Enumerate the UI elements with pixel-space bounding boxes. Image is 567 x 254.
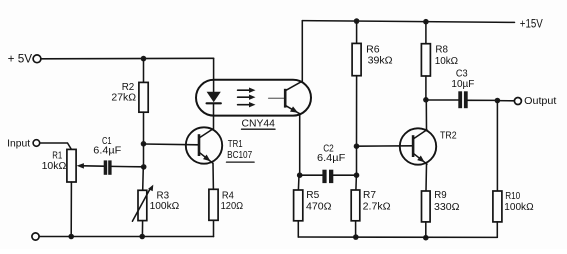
junction: ground rail at R3 <box>139 234 145 240</box>
svg-text:6.4µF: 6.4µF <box>317 153 345 164</box>
wire: R10 bottom to ground rail <box>496 222 498 237</box>
resistor R3 (variable) <box>138 190 147 220</box>
wire: base node down to C2 node <box>356 146 358 175</box>
svg-text:39kΩ: 39kΩ <box>368 55 393 67</box>
R1 wiper arrow <box>84 165 104 167</box>
wire: opto collector to +15V rail <box>301 21 303 82</box>
wire: +5V rail <box>41 57 213 60</box>
wire: R8 bottom lead <box>425 76 427 100</box>
svg-text:470Ω: 470Ω <box>306 200 332 212</box>
junction: ground rail at R9 <box>423 235 429 241</box>
wire: base node down to C1 node <box>143 144 145 167</box>
junction: R8 top at +15V rail <box>423 19 429 25</box>
optocoupler CNY44 body <box>196 80 311 116</box>
resistor R7 <box>351 190 360 221</box>
svg-text:10µF: 10µF <box>451 78 474 90</box>
svg-text:TR2: TR2 <box>440 130 457 142</box>
wire: TR2 emitter lead <box>425 164 428 191</box>
wire: R3 bottom lead <box>141 221 143 237</box>
wire: TR2 base wire <box>357 145 413 147</box>
junction: R2 top node <box>141 56 147 62</box>
junction: ground rail at R7 <box>353 234 359 240</box>
wire: C3 to R10 node <box>468 99 498 101</box>
svg-text:10kΩ: 10kΩ <box>42 160 67 172</box>
wire: TR1 base wire <box>144 143 199 146</box>
wire: rail to R6 <box>356 21 358 43</box>
junction: C1 output node <box>141 164 147 170</box>
svg-text:6.4µF: 6.4µF <box>93 145 121 156</box>
resistor R4 <box>209 189 218 220</box>
light arrow 1 <box>238 89 251 91</box>
junction: R6 top at +15V rail <box>354 18 360 24</box>
resistor R5 <box>294 190 303 221</box>
wire: +15V rail <box>302 21 514 23</box>
wire: R1 bottom to ground rail <box>70 182 72 237</box>
wire: C2 node down to R7 <box>355 175 358 190</box>
wire: node to output terminal <box>497 100 514 102</box>
wire: R5 bottom to ground rail <box>297 221 299 237</box>
terminal +5V <box>33 55 41 63</box>
transistor TR1 <box>186 127 222 163</box>
resistor R9 <box>422 191 431 222</box>
svg-text:R8: R8 <box>435 44 448 56</box>
wire: R7 bottom to ground rail <box>355 221 357 237</box>
svg-text:100kΩ: 100kΩ <box>150 200 180 212</box>
wire: output node to C3 <box>426 99 458 101</box>
wire: right ground rail <box>298 236 497 238</box>
LED of CNY44 <box>207 92 221 102</box>
svg-text:TR1: TR1 <box>228 138 243 150</box>
potentiometer R1 <box>67 149 76 182</box>
capacitor C1 <box>104 160 108 174</box>
svg-text:100kΩ: 100kΩ <box>504 201 533 213</box>
wire: rail to R8 <box>425 22 427 44</box>
resistor R6 <box>352 43 361 75</box>
svg-text:Output: Output <box>524 95 556 107</box>
wire: TR1 collector / LED cathode <box>213 103 215 128</box>
wire: R4 bottom lead <box>213 220 215 236</box>
transistor TR2 <box>400 128 436 164</box>
wire: C1 node down to R3 <box>142 167 145 190</box>
svg-text:R5: R5 <box>306 189 319 201</box>
wire: left ground rail <box>39 236 213 238</box>
svg-text:CNY44: CNY44 <box>242 119 276 130</box>
junction: TR2 base node <box>354 143 360 149</box>
svg-text:2.7kΩ: 2.7kΩ <box>363 201 391 213</box>
svg-text:+15V: +15V <box>520 19 543 31</box>
junction: R8 bottom / output node <box>423 97 429 103</box>
svg-text:120Ω: 120Ω <box>221 200 244 212</box>
light arrow 3 <box>238 104 251 106</box>
capacitor C2 <box>322 170 326 183</box>
wire: R10 top lead <box>496 101 498 192</box>
wire: C1 right lead to node <box>112 165 144 167</box>
junction: R10 top node <box>495 98 501 104</box>
capacitor C3 <box>458 91 462 108</box>
wire: R6 bottom to TR2 base node <box>356 76 358 147</box>
terminal input common <box>32 233 39 240</box>
wire: LED anode from +5V rail <box>213 58 215 92</box>
terminal Output <box>514 98 521 105</box>
svg-text:R6: R6 <box>366 43 380 55</box>
svg-text:+ 5V: + 5V <box>8 52 32 66</box>
svg-text:Input: Input <box>7 138 30 149</box>
phototransistor of CNY44 <box>269 81 302 113</box>
wire: C2 left lead <box>300 174 323 176</box>
junction: TR1 base node <box>141 141 147 147</box>
terminal Input <box>33 140 40 147</box>
svg-text:R9: R9 <box>434 189 447 201</box>
junction: C2 right / base branch node <box>354 172 360 178</box>
resistor R10 <box>493 191 502 222</box>
wire: input to R1 top <box>40 143 72 149</box>
wire: R2 bottom to TR1 base node <box>143 112 145 144</box>
wire: TR1 emitter lead <box>212 163 214 189</box>
svg-text:BC107: BC107 <box>227 149 252 161</box>
wire: R2 top lead <box>143 59 145 83</box>
junction: C2 left node <box>297 172 303 178</box>
wire: TR2 collector lead <box>425 100 427 130</box>
svg-text:10kΩ: 10kΩ <box>435 55 459 67</box>
wire: opto emitter down to C2 node <box>299 114 301 176</box>
svg-text:27kΩ: 27kΩ <box>111 92 136 104</box>
resistor R2 <box>139 82 148 112</box>
wire: R9 bottom to ground rail <box>425 222 427 238</box>
wire: C2 right lead <box>333 174 356 176</box>
light arrow 2 <box>238 96 251 98</box>
resistor R8 <box>421 44 430 76</box>
svg-text:330Ω: 330Ω <box>434 201 460 213</box>
wire: C2 node to R5 <box>297 175 300 190</box>
svg-text:R7: R7 <box>363 189 376 201</box>
junction: ground rail at R1 <box>68 234 74 240</box>
